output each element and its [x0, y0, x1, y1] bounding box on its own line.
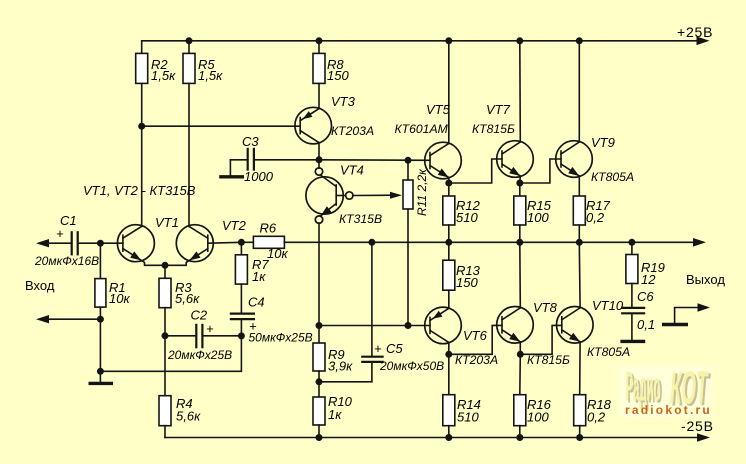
- svg-text:VT6: VT6: [463, 328, 488, 343]
- svg-text:1к: 1к: [328, 407, 342, 422]
- wire VT6 to VT8 base: [449, 325, 502, 354]
- node dot bottom R18: [576, 434, 583, 441]
- svg-text:VT1, VT2 - КТ315В: VT1, VT2 - КТ315В: [83, 183, 196, 198]
- svg-text:C6: C6: [637, 289, 654, 304]
- wire VT7 emitter to VT9 base: [520, 159, 561, 183]
- svg-text:-25В: -25В: [681, 418, 714, 434]
- transistor VT2 (NPN KT315B, mirrored): [165, 218, 247, 265]
- svg-text:КТ203А: КТ203А: [331, 124, 374, 138]
- svg-text:КТ203А: КТ203А: [455, 353, 498, 367]
- node dot input ground: [97, 316, 104, 323]
- ground C6: [620, 340, 645, 343]
- node dot VT6 base R9: [316, 322, 323, 329]
- svg-text:0,2: 0,2: [586, 210, 605, 225]
- wire VT5 emitter to dot: [448, 178, 450, 184]
- svg-text:5,6к: 5,6к: [175, 291, 200, 306]
- node dot VT8 emitter: [517, 351, 524, 358]
- svg-text:100: 100: [527, 410, 549, 425]
- svg-text:КТ815Б: КТ815Б: [527, 353, 570, 367]
- svg-text:0,1: 0,1: [637, 317, 655, 332]
- node dot bottom R10: [316, 434, 323, 441]
- node bottom rail arrow -25V: [697, 433, 710, 442]
- resistor R14: [443, 354, 481, 437]
- node top rail arrow +25V: [697, 37, 710, 46]
- resistor R8: [313, 41, 349, 109]
- svg-text:10к: 10к: [109, 291, 130, 306]
- node dot R11 top: [405, 157, 412, 164]
- svg-text:radiokot.ru: radiokot.ru: [625, 403, 712, 417]
- node dot top R8: [316, 37, 323, 44]
- resistor R1: [95, 243, 131, 371]
- svg-text:VT3: VT3: [331, 94, 356, 109]
- wire C3 ground stub: [229, 160, 231, 177]
- svg-text:1000: 1000: [244, 169, 274, 184]
- svg-text:VT10: VT10: [592, 298, 624, 313]
- node dot mid R12 R13: [445, 239, 452, 246]
- svg-text:1к: 1к: [252, 269, 266, 284]
- resistor R3: [159, 265, 200, 336]
- wire VT8 collector: [519, 242, 522, 307]
- wire VT9 collector: [578, 41, 580, 142]
- resistor R7: [235, 242, 269, 313]
- svg-text:КТ315В: КТ315В: [339, 212, 382, 226]
- resistor R18: [574, 395, 612, 438]
- wire VT10 emitter: [579, 342, 581, 395]
- node dot top VT5: [445, 37, 452, 44]
- node dot R11 bottom: [405, 322, 412, 329]
- wire VT10 collector: [578, 242, 581, 307]
- resistor R4: [159, 396, 201, 438]
- svg-text:VT1: VT1: [155, 215, 179, 230]
- node dot top VT7: [516, 37, 523, 44]
- ground C3: [219, 175, 244, 178]
- node dot mid C5: [368, 239, 375, 246]
- resistor R12: [443, 183, 481, 242]
- wire mid rail: [284, 241, 695, 243]
- transistor VT1 (NPN KT315B): [117, 215, 178, 265]
- resistor R19: [626, 242, 665, 308]
- node dot R3 C2: [162, 332, 169, 339]
- node dot mid R19: [628, 239, 635, 246]
- wire lower input: [47, 318, 100, 320]
- wire VT6 collector down: [448, 342, 450, 354]
- transistor VT3 (PNP KT203A): [295, 94, 374, 160]
- resistor R9: [313, 326, 353, 382]
- transistor VT7 (NPN KT815B): [472, 102, 533, 177]
- svg-text:КТ815Б: КТ815Б: [472, 122, 515, 136]
- node dot VT3 base junction: [138, 123, 145, 130]
- wire R3 down to R4: [164, 336, 166, 396]
- svg-text:R6: R6: [260, 221, 277, 236]
- resistor R13: [443, 242, 481, 307]
- node dot top R5: [186, 37, 193, 44]
- svg-text:КТ805А: КТ805А: [587, 345, 630, 359]
- svg-text:+25В: +25В: [677, 24, 713, 40]
- transistor VT9 (NPN KT805A): [556, 135, 634, 184]
- svg-text:VT8: VT8: [533, 300, 558, 315]
- svg-text:150: 150: [456, 275, 478, 290]
- wire VT3 base: [142, 125, 300, 127]
- node dot R9 R10 C5: [316, 378, 323, 385]
- svg-text:VT2: VT2: [222, 218, 247, 233]
- node dot VT3-VT4 junction: [316, 156, 323, 163]
- svg-text:5,6к: 5,6к: [176, 409, 201, 424]
- wire VT2 base: [208, 241, 242, 244]
- capacitor C1: [34, 213, 100, 268]
- svg-text:3,9к: 3,9к: [328, 359, 353, 374]
- node dot VT6 collector: [445, 351, 452, 358]
- svg-text:20мкФх16В: 20мкФх16В: [34, 254, 99, 268]
- svg-text:1,5к: 1,5к: [198, 68, 223, 83]
- svg-text:VT4: VT4: [340, 163, 364, 178]
- svg-text:+: +: [56, 226, 64, 241]
- capacitor C4: [230, 295, 313, 345]
- node dot bottom R16: [516, 434, 523, 441]
- svg-text:КТ601АМ: КТ601АМ: [395, 122, 449, 136]
- resistor R11 trimmer: [403, 160, 429, 325]
- svg-text:10к: 10к: [267, 246, 288, 261]
- node R11 wiper arrow: [390, 192, 402, 199]
- wire VT4 top pin: [318, 160, 320, 168]
- node dot ground junction: [97, 368, 104, 375]
- wire VT5 collector: [448, 41, 450, 144]
- resistor R5: [183, 41, 223, 227]
- wire bottom -25V rail: [165, 437, 699, 439]
- wire VT7 emitter to dot: [519, 176, 522, 183]
- resistor R16: [514, 354, 552, 437]
- resistor R17: [573, 196, 610, 242]
- node dot mid R15 VT8: [516, 239, 523, 246]
- wire ground row to C2 C4 junction: [100, 336, 241, 371]
- transistor VT4 (NPN KT315B, rotated, pin circles): [306, 163, 382, 227]
- svg-text:150: 150: [327, 68, 349, 83]
- transistor VT6 (PNP KT203A): [425, 307, 498, 367]
- capacitor C6: [621, 289, 655, 340]
- wire VT7 collector: [519, 41, 522, 142]
- svg-text:12: 12: [641, 272, 656, 287]
- wire VT8 emitter: [519, 342, 521, 355]
- node dot C1 R1 VT1: [97, 240, 104, 247]
- capacitor C5: [319, 242, 444, 381]
- node dot bottom R14: [445, 434, 452, 441]
- svg-text:C4: C4: [248, 295, 265, 310]
- wire VT1 base: [100, 242, 123, 244]
- node mid rail arrow: [693, 238, 706, 247]
- svg-text:VT7: VT7: [486, 102, 511, 117]
- transistor VT8 (NPN KT815B): [497, 300, 570, 367]
- node dot VT5 emitter: [445, 180, 452, 187]
- svg-text:Вход: Вход: [25, 278, 55, 293]
- node watermark RadioKOT: [619, 362, 713, 417]
- node output terminal: [662, 303, 710, 324]
- svg-text:C3: C3: [242, 134, 259, 149]
- wire node to R11 top: [319, 159, 430, 162]
- node dot top VT9: [576, 37, 583, 44]
- node dot mid R17 VT10: [576, 239, 583, 246]
- wire VT4 base to R11 wiper arrow: [353, 194, 392, 196]
- svg-text:510: 510: [457, 410, 479, 425]
- svg-text:C5: C5: [386, 341, 403, 356]
- svg-text:R11 2,2к: R11 2,2к: [415, 168, 429, 216]
- svg-text:20мкФх25В: 20мкФх25В: [167, 348, 232, 362]
- wire VT5 emitter to VT7 base: [449, 159, 502, 183]
- wire VT6 base row: [319, 325, 430, 327]
- svg-text:Выход: Выход: [686, 272, 725, 287]
- resistor R6: [241, 221, 288, 262]
- svg-text:1,5к: 1,5к: [151, 68, 176, 83]
- wire top +25V rail: [142, 40, 698, 42]
- svg-text:КТ805А: КТ805А: [591, 170, 634, 184]
- node dot common emitters: [162, 262, 169, 269]
- svg-text:+: +: [374, 341, 382, 356]
- node dot VT2 base R6 R7: [238, 239, 245, 246]
- wire VT9 emitter down: [578, 176, 580, 196]
- resistor R15: [514, 183, 552, 242]
- node dot C2 C4 ground: [238, 332, 245, 339]
- capacitor C2: [165, 308, 241, 363]
- transistor VT5 (NPN KT601AM): [395, 102, 462, 179]
- resistor R10: [313, 382, 353, 438]
- ground input: [89, 371, 114, 383]
- resistor R2: [136, 41, 176, 126]
- svg-text:VT5: VT5: [426, 102, 451, 117]
- svg-text:50мкФх25В: 50мкФх25В: [249, 331, 313, 345]
- svg-text:100: 100: [527, 210, 549, 225]
- capacitor C3: [230, 134, 319, 184]
- node lower input arrow: [36, 315, 49, 323]
- svg-text:0,2: 0,2: [587, 410, 606, 425]
- svg-text:+: +: [206, 321, 214, 336]
- svg-text:VT9: VT9: [591, 135, 615, 150]
- svg-text:510: 510: [456, 210, 478, 225]
- wire R2 to VT1 collector: [141, 126, 143, 226]
- svg-text:20мкФх50В: 20мкФх50В: [379, 359, 444, 373]
- wire VT8 to VT10 base: [520, 325, 562, 354]
- transistor VT10 (NPN KT805A): [557, 298, 631, 359]
- node dot VT7 emitter: [516, 180, 523, 187]
- wire VT4 bottom pin down to VT6 base line: [318, 223, 320, 326]
